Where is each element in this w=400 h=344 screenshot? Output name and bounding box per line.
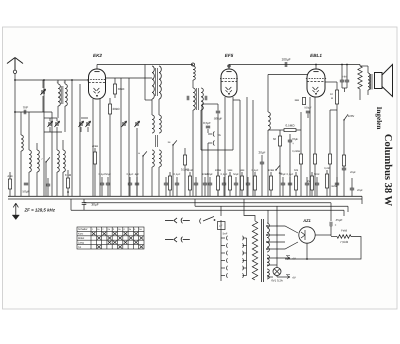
wire osc right to bus [158, 167, 160, 196]
wire lamp top lead [267, 264, 277, 266]
capacitor 4µF bottom row x=137 [135, 183, 139, 185]
wire EF5 top [228, 65, 230, 70]
capacitor 100µF top [285, 62, 287, 67]
resistor 100Ω bottom row x=218 [216, 176, 219, 190]
svg-text:EF5: EF5 [225, 53, 234, 58]
wire drop x=348 [347, 206, 349, 212]
svg-text:Schalter: Schalter [78, 228, 88, 231]
table row labels [78, 228, 143, 249]
wire trimmer bottom lead [42, 96, 44, 112]
trimmer C9 [134, 121, 139, 127]
svg-text:50µF: 50µF [233, 173, 239, 176]
capacitor 50nF bottom row x=317 [315, 183, 319, 185]
trimmer antenna C2 [40, 89, 45, 95]
resistor 0,1µF bottom row x=255 [253, 176, 256, 190]
wire x=52 vertical [51, 112, 53, 196]
wire AZ1 output [315, 234, 331, 236]
wire selector spine [220, 220, 222, 281]
wire x=247 vertical [246, 97, 248, 196]
wire EK2 left pin [87, 80, 90, 84]
wire x=21 down [20, 112, 22, 135]
wire to speaker top [360, 65, 368, 67]
wire x=37 stub [36, 143, 38, 150]
resistor 4,5kΩ [8, 179, 11, 189]
wire [192, 80, 194, 88]
svg-text:EBL1: EBL1 [310, 53, 322, 58]
loudspeaker core [371, 74, 373, 90]
transformer secondary HV [267, 223, 269, 252]
svg-text:10kΩ: 10kΩ [268, 169, 274, 172]
svg-text:20µF: 20µF [350, 171, 356, 174]
coil L4 [57, 150, 59, 172]
wire term [192, 65, 194, 66]
wire x=253 vertical [252, 100, 254, 196]
wire x=268 top [267, 75, 269, 113]
wire trim2 top [56, 118, 58, 121]
wire spk btm [367, 90, 369, 95]
capacitor HN a [340, 80, 344, 82]
capacitor 500µF EBL1 [306, 111, 310, 113]
resistor 50k bottom row x=296 [294, 176, 297, 190]
svg-text:Kurz: Kurz [78, 233, 84, 236]
capacitor 0,1µF bottom row x=224 [222, 183, 226, 185]
wire to Feld [330, 226, 332, 236]
arrow 4V a [286, 256, 290, 260]
svg-text:0,1µF: 0,1µF [252, 169, 259, 172]
wire primary tap spine [246, 238, 248, 276]
wire ant coil top b [64, 80, 66, 84]
wire feld lead [331, 236, 337, 238]
wire chassis bus 2 [8, 198, 362, 200]
wire lamp feed [276, 206, 278, 265]
wire osc left to bus [151, 167, 153, 196]
coil osc T2 right [159, 115, 161, 133]
wire x=352 lower [351, 190, 353, 196]
svg-text:Ingelen: Ingelen [375, 107, 383, 130]
trimmer C4 [47, 121, 52, 127]
svg-text:7,5kΩ: 7,5kΩ [340, 240, 349, 244]
core osc T1 [156, 68, 158, 96]
wire x=268 to bus [267, 130, 269, 196]
wire lamp stub [276, 265, 278, 268]
wire [87, 127, 89, 132]
wire x=63 [62, 140, 64, 150]
svg-text:ZF = 128,5 kHz: ZF = 128,5 kHz [24, 208, 56, 213]
loudspeaker [375, 65, 393, 97]
resistor output zigzag [358, 66, 362, 89]
wire x=201 down [200, 110, 202, 150]
svg-text:0,1µF: 0,1µF [221, 173, 228, 176]
tube EF5 [220, 69, 238, 97]
resistor 20kΩ [108, 104, 111, 114]
svg-text:100µF: 100µF [281, 58, 290, 62]
capacitor 20µF right-mid electrolytic [342, 168, 346, 170]
transformer winding 4V b [267, 269, 269, 279]
svg-text:4µF: 4µF [135, 173, 140, 176]
capacitor 50µF bottom row x=108 [106, 183, 110, 185]
capacitor HN b [345, 80, 349, 82]
coil antenna T right [65, 84, 67, 106]
wire HV tap 2 [267, 242, 298, 249]
wire x=63 to bus [62, 172, 64, 196]
wire x=44 vertical [43, 80, 45, 196]
wire ta b [207, 143, 209, 196]
switch S1a lead [45, 162, 47, 196]
capacitor IF2 left [187, 96, 189, 100]
wire feld loop [285, 237, 361, 260]
switch S1b [142, 151, 147, 156]
wire supply line 1 [84, 202, 331, 204]
wire trimmer top lead [42, 80, 44, 88]
svg-text:500µF: 500µF [304, 107, 312, 110]
svg-text:Ω: Ω [331, 97, 333, 100]
capacitor 0,1µF bottom row x=102 [100, 183, 104, 185]
wire x=240 vertical [239, 100, 241, 196]
svg-text:1kΩ: 1kΩ [240, 169, 245, 172]
capacitor 20µF far right [350, 188, 354, 190]
resistor 10Ω [335, 90, 338, 104]
svg-text:0,1µF: 0,1µF [127, 173, 134, 176]
capacitor 20µF mid [260, 162, 264, 164]
core antenna transformer [61, 86, 63, 104]
svg-text:0,2MΩ: 0,2MΩ [292, 150, 300, 153]
jack input 2 [165, 237, 190, 243]
wire chassis bus 1 [8, 195, 362, 197]
wire HV tap mid 2 [267, 241, 285, 243]
resistor 1kΩ bottom row x=242 [240, 176, 243, 190]
wire EBL1 anode right [325, 81, 337, 83]
coil IF2 left [193, 88, 195, 110]
transformer winding 4V a [267, 255, 269, 266]
resistor 50kΩ right [342, 155, 345, 166]
wire y=118 b [81, 117, 88, 119]
coil osc T3 left [152, 150, 154, 167]
resistor Feld 7,5kΩ [337, 235, 351, 239]
wire x=121 vertical [120, 78, 122, 196]
wire drop x=344 [343, 210, 345, 216]
coil L2 [29, 150, 31, 172]
svg-text:1MΩ: 1MΩ [331, 185, 337, 188]
capacitor 50µF bottom row x=236 [234, 183, 238, 185]
coil L3 [37, 150, 39, 172]
terminal circle EF5 [228, 65, 230, 67]
wire top bus segment 2 [229, 64, 360, 66]
svg-text:TA: TA [217, 133, 221, 137]
resistor 0,2M bottom row x=327 [325, 174, 328, 188]
wire bus right end [361, 196, 363, 204]
resistor 50Ω [278, 136, 281, 146]
svg-text:1kΩ: 1kΩ [294, 99, 299, 102]
wire HV tap 1 [267, 226, 298, 233]
wire 4V heater a [267, 257, 290, 259]
coil IF2 right [201, 88, 203, 110]
table X marks [92, 232, 143, 248]
wire AZ1 cathode down [306, 243, 308, 259]
wire lamp btm [276, 276, 278, 278]
wire EBL1 grid feed [268, 74, 308, 76]
capacitor 0,1µF bottom row x=130 [128, 183, 132, 185]
wire EBL1 top [315, 65, 317, 70]
svg-text:+: + [292, 142, 294, 146]
svg-text:40kΩ: 40kΩ [92, 145, 98, 148]
resistor R bottom row x=312 [310, 176, 313, 190]
capacitor C bottom row x=307 [305, 183, 309, 185]
svg-text:AZ1: AZ1 [302, 218, 311, 223]
svg-text:50: 50 [273, 137, 277, 141]
coil IF3 [268, 112, 270, 130]
resistor 50kΩ [113, 84, 116, 94]
svg-text:4,5k: 4,5k [7, 174, 13, 178]
svg-text:70µF: 70µF [292, 137, 299, 141]
transformer core [262, 219, 264, 282]
ground [13, 203, 18, 215]
wire x=173 vertical [172, 145, 174, 196]
resistor 1MΩ [328, 154, 331, 164]
wire 10ohm bottom [336, 104, 338, 110]
wire x=57 to bus [56, 172, 58, 196]
coil osc T1 left [152, 66, 154, 99]
svg-text:0,5µF: 0,5µF [203, 121, 211, 125]
svg-text:0,1M: 0,1M [65, 173, 72, 177]
wire HV tap mid 1 [267, 234, 285, 236]
wire drop x=195 [194, 199, 196, 206]
resistor 5kΩ bottom row x=230 [228, 176, 231, 190]
capacitor 50µF bottom row x=210 [208, 183, 212, 185]
svg-text:Feld: Feld [341, 229, 347, 233]
wire x=137 vertical [136, 128, 138, 196]
switch S1a [45, 157, 50, 162]
capacitor C bottom row x=196 [194, 183, 198, 185]
svg-text:+: + [335, 223, 337, 227]
voltage selector contacts [221, 236, 228, 278]
resistor 250Ω [313, 154, 316, 164]
wire EK2 pin a [92, 99, 94, 196]
wire x=352 upper [351, 178, 353, 188]
capacitor C bottom row x=166 [164, 183, 168, 185]
wire x=37 to bus [36, 172, 38, 196]
svg-text:50k: 50k [294, 169, 299, 172]
svg-text:6V1 0,2A: 6V1 0,2A [271, 279, 283, 283]
svg-text:0,5MΩ: 0,5MΩ [286, 124, 296, 128]
wire selector feed [220, 207, 222, 217]
resistor 0,1MΩ mid [183, 155, 186, 165]
capacitor 70µF electrolytic [288, 140, 292, 142]
wire x=301 vertical [300, 112, 302, 130]
wire primary top feed [244, 199, 255, 221]
capacitor 50µF left [24, 183, 28, 185]
wire 4V heater b [267, 276, 273, 278]
wire EK2 pin b [99, 99, 101, 196]
svg-text:20kΩ: 20kΩ [112, 107, 120, 111]
wire ant coil top a [57, 80, 59, 84]
wire drop x=331 [330, 203, 332, 204]
svg-text:20µF: 20µF [259, 151, 266, 155]
wire EK2 anode to osc [106, 77, 153, 79]
tube EK2 [88, 69, 107, 99]
coil L1 [21, 135, 23, 151]
coil antenna T left [58, 84, 60, 106]
pilot lamp [273, 268, 281, 276]
transformer primary winding [252, 221, 257, 280]
trimmer C7 [85, 121, 90, 127]
capacitor 0,1µF bottom row x=290 [288, 183, 292, 185]
wire trim1 btm [49, 127, 51, 132]
svg-text:TA: TA [78, 246, 81, 249]
wire x=21 to bus [20, 151, 22, 196]
capacitor 10kΩ bottom row x=205 [203, 183, 207, 185]
core dashes [156, 135, 158, 147]
svg-text:500µF: 500µF [214, 117, 223, 121]
terminal circle [192, 63, 195, 66]
transformer primary taps [243, 236, 247, 278]
wire y=100 [233, 99, 240, 101]
wire top bus segment 1 [97, 64, 193, 66]
tube EBL1 [306, 69, 326, 97]
switch S1c [172, 140, 177, 145]
svg-text:Mittel: Mittel [78, 237, 85, 240]
wire EF5 pin a [224, 97, 226, 196]
wire ant coil btm b [64, 106, 66, 132]
wire osc mid right [158, 99, 160, 115]
trimmer C5 [54, 121, 59, 127]
wire EK2 anode top [96, 65, 98, 70]
wire x=360 stub [359, 65, 361, 67]
resistor 1kΩ EBL1 cathode [302, 98, 305, 105]
wire x=71 drop [70, 199, 72, 210]
svg-text:EK2: EK2 [93, 53, 102, 58]
wire y=132 [44, 131, 62, 133]
capacitor C bottom row x=248 [246, 183, 250, 185]
capacitor 30µF [82, 203, 87, 205]
trimmer C6 [78, 121, 83, 127]
capacitor 500µF [216, 111, 220, 113]
wire from 0,5M [296, 129, 301, 131]
svg-text:20µF: 20µF [357, 189, 363, 192]
resistor 0,2MΩ [299, 154, 302, 164]
wire trim1 top [49, 118, 51, 121]
wire supply line 2 [195, 205, 348, 207]
wire heater b right [277, 276, 290, 278]
capacitor 45µF electrolytic [330, 222, 332, 227]
capacitor 50µF bottom row x=283 [281, 183, 285, 185]
coil L5 [63, 150, 65, 172]
svg-text:5nF: 5nF [223, 232, 228, 236]
wire AVC y=150 [201, 149, 233, 151]
capacitor 0,1µF bottom row x=177 [175, 183, 179, 185]
svg-text:5kΩ: 5kΩ [228, 169, 233, 172]
capacitor 7nF [24, 110, 26, 114]
wire y=112 left [15, 111, 52, 113]
switch 1a [275, 165, 280, 170]
wire zigzag btm [359, 89, 361, 100]
capacitor IF2 right [205, 96, 207, 100]
svg-text:0,1µF: 0,1µF [174, 173, 181, 176]
capacitor C bottom row x=337 [335, 183, 339, 185]
arrow 4V b [286, 275, 290, 279]
wire x=268 to secondary [267, 210, 269, 223]
wire ta b lead [208, 142, 212, 144]
switch position table [77, 227, 144, 249]
resistor R bottom row x=170 [168, 176, 171, 190]
wire x=145 from top bus [144, 65, 146, 101]
svg-text:0,2M: 0,2M [324, 167, 330, 170]
lamp cross [274, 269, 280, 275]
svg-text:4V: 4V [292, 276, 296, 280]
svg-text:Columbus 38 W: Columbus 38 W [382, 134, 393, 207]
wire ta a [208, 133, 212, 135]
wire switch S1b lead [142, 156, 144, 196]
wire osc mid left [151, 99, 153, 115]
svg-text:4V: 4V [292, 257, 296, 261]
core IF2 [197, 88, 199, 110]
coil osc T2 left [152, 115, 154, 133]
wire antenna bus y=80 [15, 79, 88, 81]
AZ1 electrodes [301, 230, 305, 240]
svg-text:30µF: 30µF [91, 202, 98, 206]
svg-text:50nF: 50nF [314, 173, 320, 176]
svg-text:7nF: 7nF [23, 106, 29, 110]
coil osc T3 right [159, 150, 161, 167]
wire x=72 vertical [71, 80, 73, 196]
wire x=80 vertical [79, 84, 81, 196]
svg-text:50µF: 50µF [23, 190, 30, 194]
resistor 0,1M bottom row x=190 [188, 176, 191, 190]
wire ant coil btm a [57, 106, 59, 118]
jack TA b [213, 141, 214, 146]
wire spk [367, 66, 369, 73]
wire y=104 [202, 103, 218, 105]
wire [207, 129, 209, 133]
wire x=202 vertical [201, 104, 203, 196]
resistor 0,1MΩ left [66, 178, 69, 188]
wire trim bus y=118 [44, 117, 57, 119]
wire x=29 down [28, 112, 30, 150]
svg-text:45µF: 45µF [336, 218, 343, 222]
wire supply line 3 [71, 209, 344, 211]
wire x=29 to bus [28, 172, 30, 196]
jack input 1 [165, 218, 190, 224]
wire x=193 to bus [192, 110, 194, 196]
wire EBL1 pin a [309, 97, 311, 196]
wire x=331 from bus [330, 204, 332, 221]
wire x=344 down [343, 120, 345, 123]
coil IF2 top [193, 66, 195, 80]
wire [80, 127, 82, 132]
wire left vertical x=15 [14, 80, 16, 196]
svg-text:0,1µF: 0,1µF [287, 173, 294, 176]
switch mains S2 [200, 217, 214, 224]
capacitor 0,5µF [206, 126, 210, 128]
svg-text:Ω: Ω [67, 190, 69, 194]
wire to 0,5M [268, 129, 284, 131]
trimmer C8 [121, 121, 126, 127]
wire trim2 btm [56, 127, 58, 132]
svg-text:100Ω: 100Ω [215, 169, 221, 172]
resistor 0,5MΩ horizontal [284, 129, 296, 132]
antenna [7, 58, 23, 71]
coil osc T1 right [159, 66, 161, 99]
svg-text:220V: 220V [348, 114, 355, 118]
jack TA a [213, 132, 214, 137]
capacitor 5nF [218, 222, 226, 230]
wire EF5 pin b [232, 97, 234, 150]
wire x=57 [56, 132, 58, 150]
switch 220V [343, 114, 348, 120]
wire x=129 vertical [128, 78, 130, 196]
loudspeaker transformer coil [368, 73, 370, 90]
svg-text:50µF: 50µF [105, 173, 111, 176]
svg-text:HN: HN [343, 76, 347, 79]
